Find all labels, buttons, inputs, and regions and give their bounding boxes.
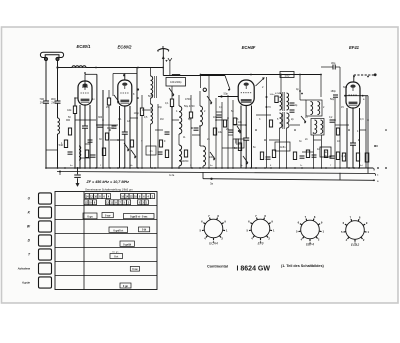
svg-text:20p: 20p bbox=[158, 106, 163, 109]
svg-text:EF9: EF9 bbox=[258, 242, 264, 246]
svg-text:Dr. gn: Dr. gn bbox=[113, 251, 120, 254]
svg-text:0 gn/0 rt - 0 ws: 0 gn/0 rt - 0 ws bbox=[130, 216, 148, 219]
svg-text:300: 300 bbox=[98, 116, 103, 119]
svg-text:60p: 60p bbox=[343, 86, 348, 89]
svg-text:100n/300p: 100n/300p bbox=[170, 81, 182, 84]
svg-text:10k: 10k bbox=[67, 108, 72, 112]
svg-text:50µ 4700: 50µ 4700 bbox=[184, 105, 195, 108]
svg-text:2W: 2W bbox=[40, 101, 45, 105]
svg-text:(1. Teil des Schaltbildes): (1. Teil des Schaltbildes) bbox=[281, 264, 325, 268]
svg-text:500: 500 bbox=[285, 73, 290, 77]
svg-text:Aufnahme: Aufnahme bbox=[17, 268, 31, 271]
svg-text:100n: 100n bbox=[236, 144, 242, 146]
svg-text:EC80/2: EC80/2 bbox=[118, 45, 133, 50]
svg-text:Continental: Continental bbox=[207, 265, 228, 269]
svg-text:2W: 2W bbox=[51, 101, 56, 105]
svg-text:50p: 50p bbox=[224, 92, 229, 96]
svg-text:EC80/1: EC80/1 bbox=[77, 44, 92, 49]
svg-text:400/50: 400/50 bbox=[181, 160, 189, 163]
svg-text:ECH4: ECH4 bbox=[209, 242, 218, 246]
svg-text:0 gn: 0 gn bbox=[87, 216, 93, 219]
svg-text:I 8624 GW: I 8624 GW bbox=[237, 265, 271, 272]
svg-text:0,3: 0,3 bbox=[360, 118, 364, 121]
svg-text:0 sw: 0 sw bbox=[132, 268, 137, 271]
svg-text:30p: 30p bbox=[331, 61, 336, 65]
svg-text:50p: 50p bbox=[330, 98, 335, 101]
svg-text:3a: 3a bbox=[210, 182, 213, 186]
svg-text:A.grün: A.grün bbox=[21, 282, 31, 285]
svg-text:0 bl: 0 bl bbox=[142, 229, 147, 232]
svg-text:0,1: 0,1 bbox=[165, 102, 169, 105]
svg-text:4n/8n: 4n/8n bbox=[280, 146, 287, 149]
svg-text:0,1: 0,1 bbox=[342, 155, 346, 158]
svg-text:G 2a: G 2a bbox=[169, 174, 175, 177]
svg-text:100p: 100p bbox=[134, 112, 140, 115]
svg-text:4700: 4700 bbox=[185, 98, 191, 101]
svg-text:0 gn: 0 gn bbox=[123, 285, 129, 288]
svg-text:ZF = 456 kHz = 10,7 MHz: ZF = 456 kHz = 10,7 MHz bbox=[86, 180, 130, 184]
svg-text:EF41: EF41 bbox=[349, 45, 360, 50]
svg-text:180p: 180p bbox=[331, 90, 337, 93]
svg-text:ECH4F: ECH4F bbox=[242, 45, 256, 50]
svg-text:0 rt: 0 rt bbox=[114, 255, 118, 258]
svg-text:0,1: 0,1 bbox=[118, 118, 122, 121]
svg-text:0 gn/bl: 0 gn/bl bbox=[123, 243, 131, 246]
svg-text:EBF4: EBF4 bbox=[306, 243, 314, 247]
svg-text:ECA3: ECA3 bbox=[351, 243, 360, 247]
svg-text:Gemeinsame Schalterstellung 1/: Gemeinsame Schalterstellung 1/8x5 µm bbox=[85, 188, 133, 192]
svg-text:0 sw: 0 sw bbox=[105, 215, 110, 218]
svg-text:0 gn/0 rt: 0 gn/0 rt bbox=[113, 229, 123, 232]
svg-text:1M: 1M bbox=[160, 118, 163, 121]
